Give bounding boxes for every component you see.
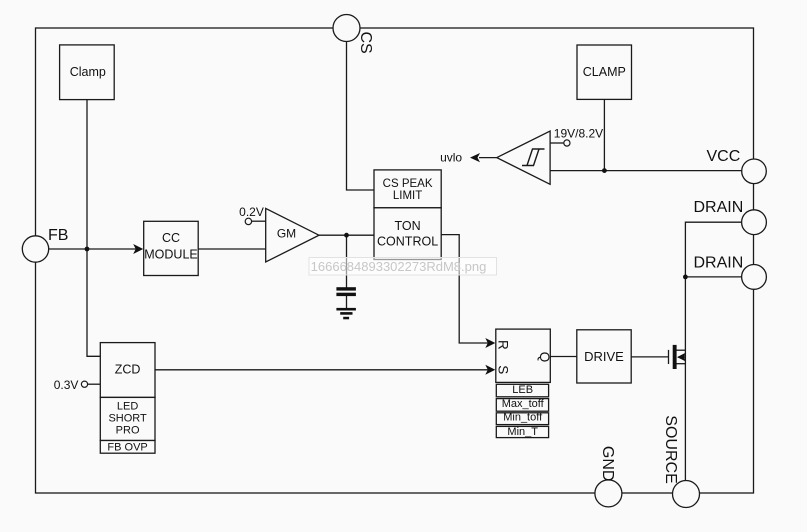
svg-text:S: S [496, 365, 511, 374]
svg-text:1666684893302273RdM8.png: 1666684893302273RdM8.png [311, 259, 487, 274]
svg-text:FB OVP: FB OVP [107, 442, 147, 454]
svg-text:GM: GM [277, 227, 296, 241]
svg-text:CLAMP: CLAMP [583, 65, 626, 79]
svg-text:DRAIN: DRAIN [694, 199, 744, 216]
svg-text:CC: CC [162, 231, 180, 245]
svg-text:SHORT: SHORT [108, 413, 147, 425]
svg-text:FB: FB [48, 227, 68, 244]
svg-text:SOURCE: SOURCE [662, 415, 679, 483]
svg-text:MODULE: MODULE [144, 248, 197, 262]
svg-text:Min_toff: Min_toff [503, 411, 543, 423]
svg-text:Clamp: Clamp [70, 65, 106, 79]
svg-text:CS PEAK: CS PEAK [383, 178, 433, 190]
svg-text:PRO: PRO [116, 425, 140, 437]
svg-text:DRIVE: DRIVE [584, 349, 624, 364]
svg-text:DRAIN: DRAIN [694, 254, 744, 271]
svg-text:TON: TON [395, 219, 421, 233]
svg-text:LED: LED [117, 401, 138, 413]
svg-text:R: R [496, 340, 511, 350]
svg-text:Max_toff: Max_toff [502, 398, 545, 410]
svg-text:CS: CS [357, 32, 374, 54]
svg-text:Min_T: Min_T [507, 426, 538, 438]
svg-text:19V/8.2V: 19V/8.2V [554, 127, 603, 141]
svg-text:CONTROL: CONTROL [377, 235, 438, 249]
svg-text:ZCD: ZCD [115, 363, 141, 377]
svg-text:uvlo: uvlo [440, 151, 462, 165]
svg-text:LEB: LEB [512, 384, 533, 396]
svg-text:GND: GND [599, 446, 616, 482]
svg-text:VCC: VCC [707, 148, 741, 165]
svg-text:0.3V: 0.3V [54, 378, 79, 392]
svg-text:LIMIT: LIMIT [393, 190, 422, 202]
svg-text:Q: Q [537, 352, 552, 363]
svg-text:0.2V: 0.2V [239, 205, 264, 219]
